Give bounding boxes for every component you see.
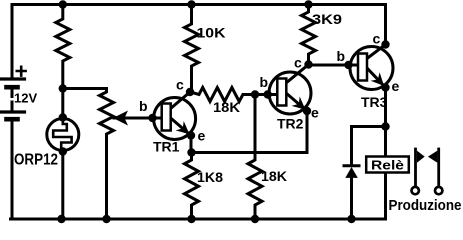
svg-text:3K9: 3K9 bbox=[312, 11, 342, 27]
svg-text:TR1: TR1 bbox=[153, 139, 180, 155]
svg-text:c: c bbox=[294, 55, 302, 71]
svg-text:Relè: Relè bbox=[371, 158, 404, 173]
svg-text:c: c bbox=[176, 77, 184, 93]
svg-text:1K8: 1K8 bbox=[197, 169, 223, 185]
svg-text:10K: 10K bbox=[197, 25, 226, 41]
svg-text:b: b bbox=[139, 98, 148, 114]
svg-text:e: e bbox=[198, 128, 206, 144]
svg-text:c: c bbox=[373, 31, 381, 47]
svg-text:18K: 18K bbox=[213, 99, 240, 115]
svg-text:e: e bbox=[392, 78, 400, 94]
svg-text:TR3: TR3 bbox=[361, 94, 388, 110]
svg-text:ORP12: ORP12 bbox=[14, 152, 58, 169]
svg-text:TR2: TR2 bbox=[277, 116, 304, 132]
svg-text:b: b bbox=[260, 74, 269, 90]
svg-text:e: e bbox=[311, 105, 319, 121]
svg-text:18K: 18K bbox=[261, 168, 287, 184]
svg-text:b: b bbox=[337, 48, 346, 64]
svg-text:12V: 12V bbox=[14, 91, 37, 106]
svg-text:Produzione: Produzione bbox=[389, 197, 462, 214]
